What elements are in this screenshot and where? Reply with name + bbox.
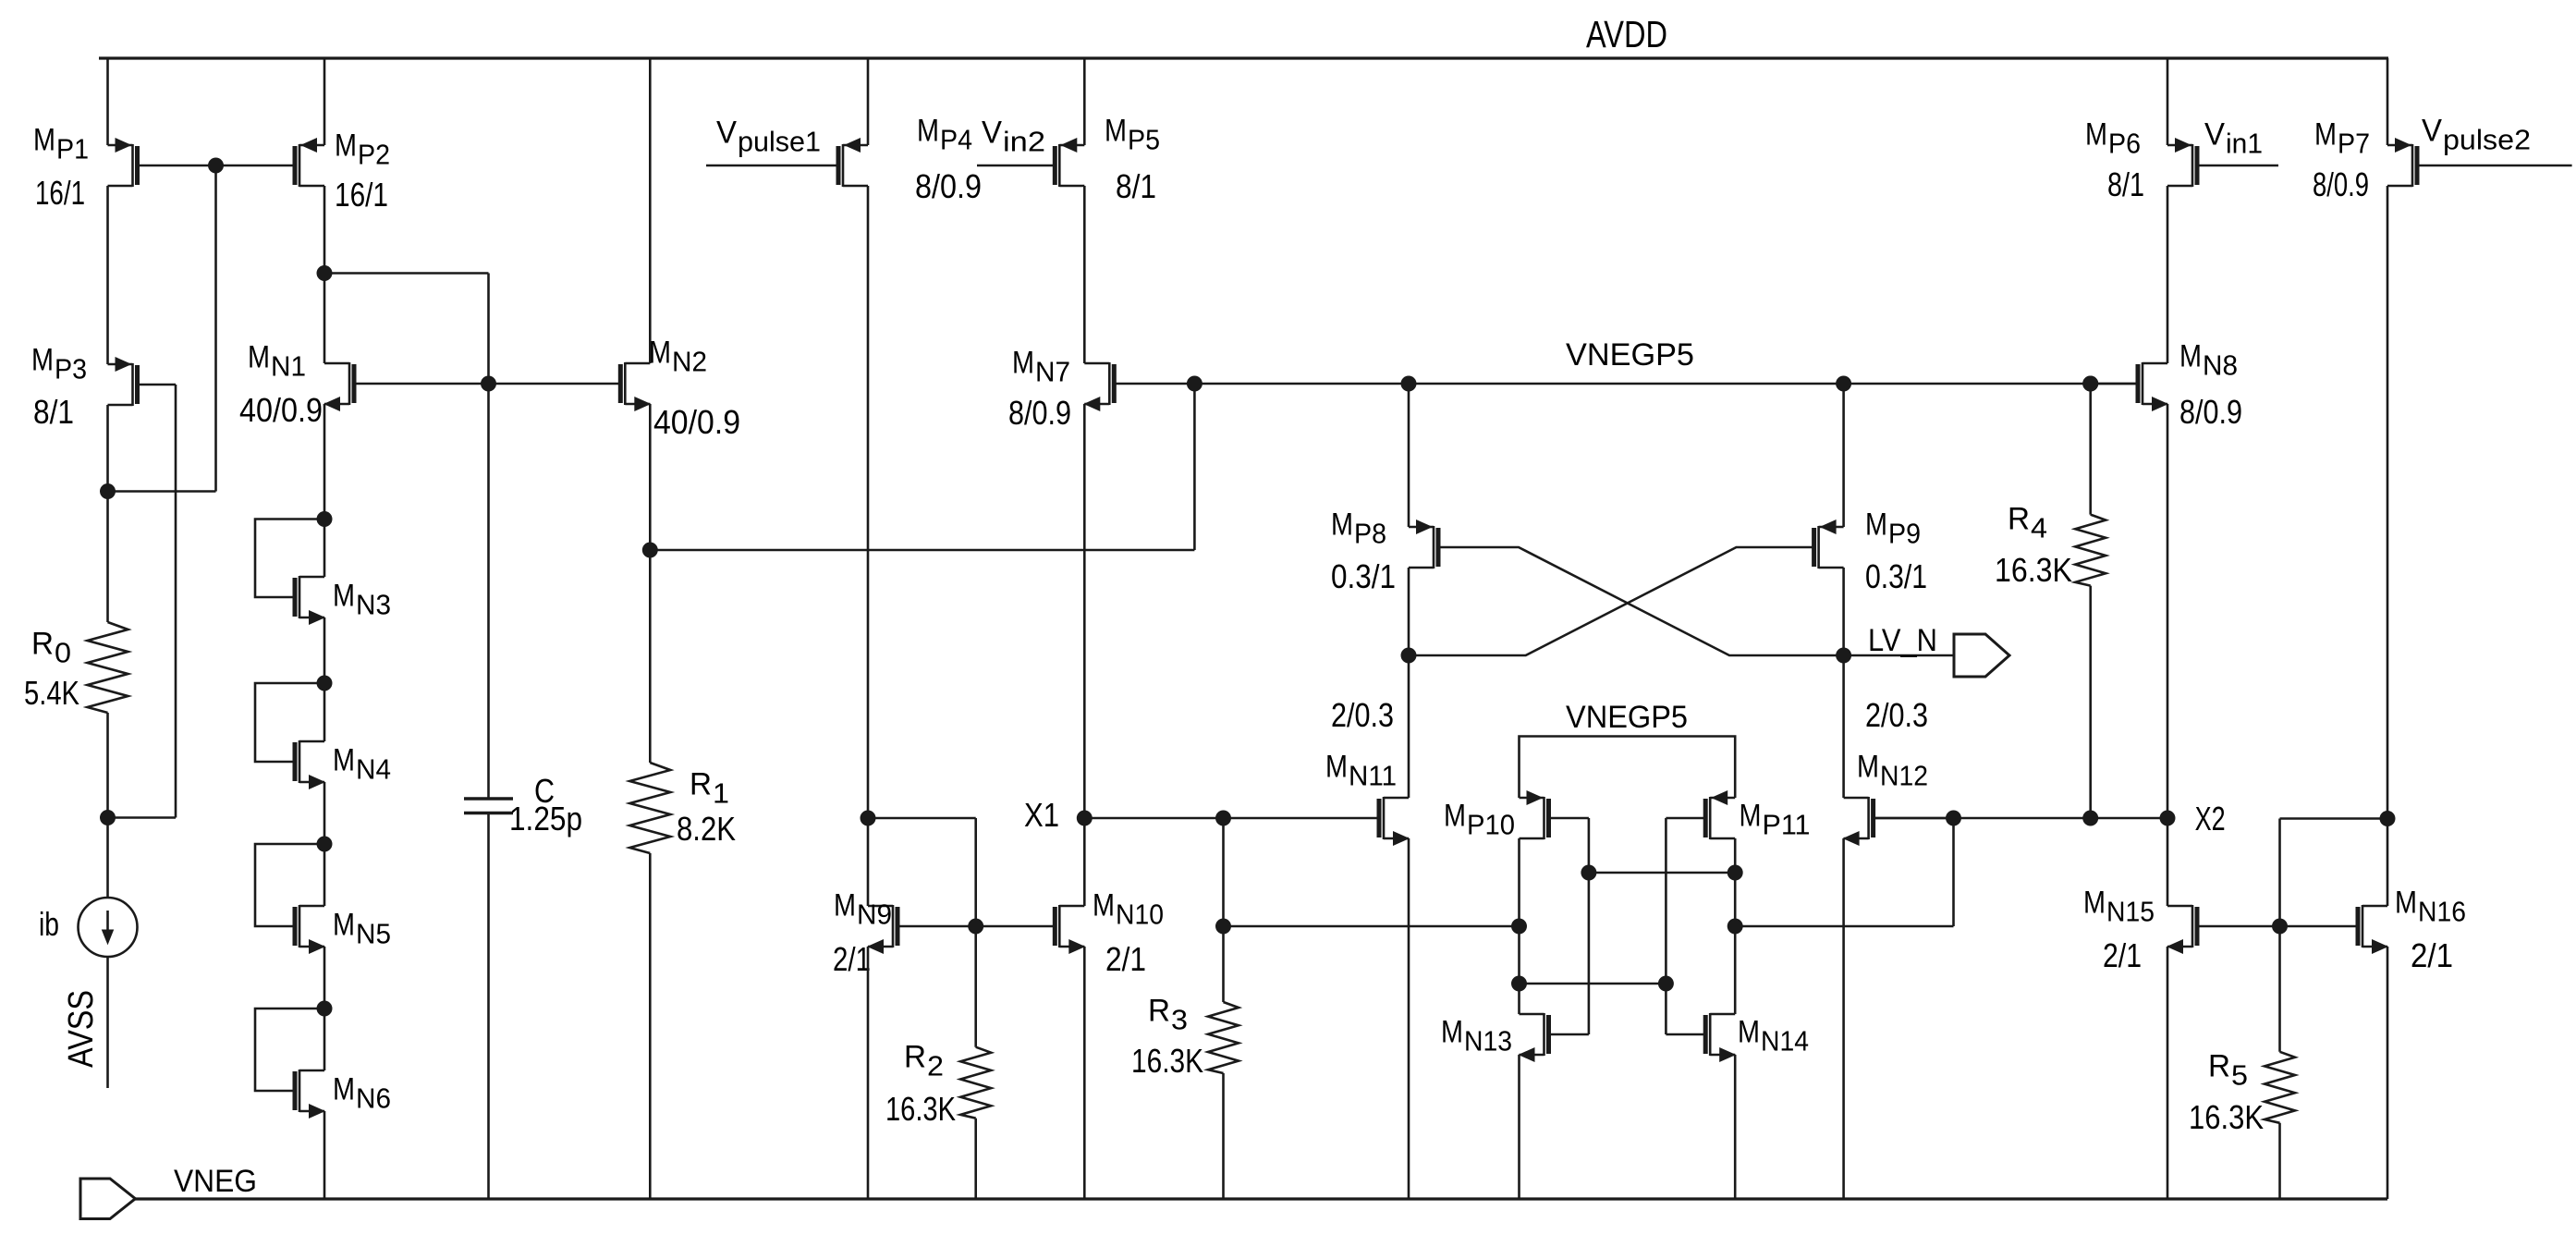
- node MN1/MN2 gate line: [481, 376, 496, 392]
- svg-text:pulse2: pulse2: [2443, 123, 2531, 155]
- wire MP11 drain to MN14: [1734, 838, 1737, 1014]
- ground rail VNEG: [135, 1197, 2387, 1200]
- svg-text:M: M: [2179, 338, 2202, 373]
- svg-text:M: M: [1738, 1014, 1760, 1049]
- wire MN5 gate loop: [255, 844, 324, 926]
- svg-text:P11: P11: [1763, 808, 1811, 840]
- wire MN6 source to VNEG: [324, 1111, 326, 1199]
- svg-text:16.3K: 16.3K: [1995, 551, 2072, 589]
- node MP8 drain: [1401, 648, 1417, 664]
- svg-text:8/1: 8/1: [1116, 167, 1156, 205]
- wire MN14 source to VNEG: [1734, 1055, 1737, 1199]
- node MN2 source: [642, 543, 658, 558]
- wire MP10 drain to MN13: [1518, 838, 1520, 1014]
- svg-text:N14: N14: [1761, 1024, 1809, 1057]
- svg-text:R: R: [2008, 501, 2030, 536]
- svg-text:P2: P2: [358, 138, 390, 170]
- svg-text:N4: N4: [356, 752, 391, 785]
- wire left bus MP10 drain to R3: [1224, 925, 1520, 928]
- svg-text:M: M: [333, 578, 355, 613]
- svg-text:1: 1: [713, 776, 729, 809]
- svg-text:2: 2: [927, 1049, 944, 1082]
- wire MP8 gate cross to MP9 drain: [1439, 547, 1844, 655]
- wire MP8 drain to MN11: [1408, 568, 1410, 798]
- node above MN4: [317, 676, 333, 691]
- svg-text:VNEGP5: VNEGP5: [1566, 337, 1694, 373]
- svg-text:N8: N8: [2203, 348, 2238, 381]
- svg-text:N13: N13: [1464, 1024, 1512, 1057]
- svg-text:M: M: [1444, 798, 1466, 833]
- svg-text:N5: N5: [356, 917, 391, 949]
- transistor MP8: [1409, 520, 1438, 568]
- node MP8 source: [1401, 376, 1417, 392]
- transistor MP10: [1520, 790, 1589, 839]
- svg-text:P4: P4: [940, 123, 972, 155]
- transistor MN16: [2280, 905, 2389, 954]
- svg-text:16/1: 16/1: [335, 176, 388, 214]
- svg-text:N15: N15: [2106, 895, 2155, 927]
- wire MN10 source to VNEG: [1083, 947, 1086, 1199]
- node R4 top: [2082, 376, 2098, 392]
- svg-text:8/0.9: 8/0.9: [2313, 165, 2369, 203]
- wire cross MP10 drain to MP11 gate: [1520, 983, 1666, 985]
- node MP1/MP2 gates: [208, 158, 224, 174]
- wire MN12 source to VNEG: [1842, 838, 1845, 1199]
- svg-text:16.3K: 16.3K: [1131, 1042, 1203, 1080]
- svg-text:P9: P9: [1888, 517, 1921, 549]
- svg-text:0: 0: [55, 636, 71, 668]
- svg-text:M: M: [2395, 885, 2417, 920]
- svg-text:X2: X2: [2195, 800, 2226, 837]
- wire MN6 gate loop: [255, 1009, 324, 1091]
- net X2 line: [1875, 817, 2167, 820]
- svg-text:ib: ib: [39, 905, 59, 943]
- wire MN5 source: [324, 947, 326, 1070]
- wire MN11 source to VNEG: [1408, 838, 1410, 1199]
- svg-text:8/0.9: 8/0.9: [915, 167, 982, 205]
- node MP3 drain / bias: [100, 483, 116, 499]
- transistor MN10: [976, 905, 1086, 954]
- resistor R3: [1208, 1002, 1239, 1073]
- svg-text:V: V: [2204, 116, 2225, 152]
- wire R5 to VNEG: [2278, 1123, 2281, 1199]
- svg-text:16.3K: 16.3K: [2189, 1098, 2264, 1136]
- node R3 / left bus: [1215, 919, 1231, 935]
- svg-text:N9: N9: [857, 898, 892, 930]
- wire MP8 source: [1408, 384, 1410, 527]
- svg-text:2/0.3: 2/0.3: [1865, 696, 1928, 734]
- wire R4 to X2: [2089, 586, 2092, 818]
- svg-text:M: M: [333, 742, 355, 777]
- svg-text:M: M: [649, 335, 671, 370]
- wire MP1 source: [106, 58, 109, 145]
- node above MN6: [317, 1001, 333, 1017]
- transistor MP5: [977, 138, 1084, 187]
- transistor MN2: [489, 362, 652, 411]
- wire MN3 source: [324, 617, 326, 741]
- svg-text:16/1: 16/1: [35, 174, 85, 212]
- wire R0 to current source: [106, 713, 109, 898]
- wire MP4 source: [867, 58, 870, 145]
- svg-text:AVDD: AVDD: [1586, 13, 1667, 55]
- node MN8 gate / R4: [2082, 376, 2098, 392]
- svg-text:M: M: [2083, 885, 2106, 920]
- svg-text:N2: N2: [672, 345, 707, 377]
- node MN15/MN16 gates / R5: [2272, 919, 2288, 935]
- svg-text:N7: N7: [1035, 355, 1070, 387]
- wire MP5 source: [1083, 58, 1086, 145]
- port flag LV_N: [1954, 634, 2009, 677]
- svg-text:P3: P3: [55, 352, 87, 385]
- port flag VNEG: [80, 1179, 135, 1219]
- transistor MN4: [295, 740, 325, 789]
- svg-text:P6: P6: [2108, 127, 2141, 159]
- wire MP10/MN13 gate link: [1588, 818, 1591, 1034]
- node MN7 gate / VNEGP5: [1187, 376, 1203, 392]
- wire capacitor to VNEG: [487, 813, 490, 1200]
- wire MP4 drain to MN9: [867, 186, 870, 906]
- node X2 / MN15 drain: [2160, 811, 2176, 826]
- svg-text:M: M: [335, 128, 357, 163]
- svg-text:N3: N3: [356, 588, 391, 620]
- wire cross MP11 drain to MP10 gate: [1589, 872, 1735, 874]
- wire MP1 drain to MP3 source: [106, 186, 109, 364]
- node MN12 gate / X2: [1946, 811, 1961, 826]
- wire MP7 source: [2387, 58, 2389, 145]
- svg-text:R: R: [1148, 993, 1170, 1028]
- wire MN2 drain from AVDD: [649, 58, 652, 363]
- transistor MN7: [1083, 362, 1194, 411]
- svg-text:in1: in1: [2226, 127, 2263, 159]
- svg-text:0.3/1: 0.3/1: [1331, 557, 1396, 595]
- node MN16 drain: [2380, 811, 2396, 826]
- svg-text:AVSS: AVSS: [62, 990, 101, 1068]
- transistor MN14: [1666, 1013, 1736, 1062]
- svg-text:in2: in2: [1003, 125, 1045, 157]
- node MP9 source: [1836, 376, 1851, 392]
- transistor MN3: [295, 576, 325, 625]
- svg-text:M: M: [1865, 507, 1887, 542]
- transistor MN12: [1843, 797, 1954, 846]
- svg-text:P1: P1: [56, 132, 89, 165]
- svg-text:2/1: 2/1: [1105, 940, 1146, 978]
- svg-text:2/0.3: 2/0.3: [1331, 696, 1394, 734]
- node MN9/MN10 gates: [968, 919, 983, 935]
- wire R2 to VNEG: [974, 1119, 977, 1199]
- transistor MN9: [867, 905, 976, 954]
- svg-text:N16: N16: [2418, 895, 2466, 927]
- svg-text:N1: N1: [271, 349, 306, 382]
- svg-text:N6: N6: [356, 1082, 391, 1114]
- svg-text:2/1: 2/1: [2103, 936, 2142, 974]
- wire MN16 source to VNEG: [2387, 947, 2389, 1199]
- wire gate node to capacitor: [487, 384, 490, 799]
- svg-text:M: M: [31, 342, 54, 377]
- wire MN3 gate loop: [255, 520, 324, 598]
- svg-text:M: M: [1105, 113, 1127, 148]
- transistor MP1: [108, 138, 216, 187]
- svg-text:V: V: [982, 115, 1002, 150]
- wire R1 to VNEG: [649, 853, 652, 1199]
- wire MP6 drain to MN8: [2167, 186, 2169, 363]
- svg-text:4: 4: [2031, 511, 2047, 544]
- transistor MP3: [108, 357, 177, 406]
- svg-text:R: R: [690, 766, 712, 801]
- node LV_N: [1836, 648, 1851, 664]
- transistor MP7: [2387, 138, 2572, 187]
- wire LV_N output: [1844, 654, 1954, 657]
- svg-text:R: R: [2208, 1048, 2230, 1083]
- svg-text:N10: N10: [1116, 898, 1164, 930]
- resistor R4: [2089, 384, 2092, 515]
- wire MP2 drain: [324, 186, 326, 363]
- svg-text:1.25p: 1.25p: [509, 800, 582, 837]
- svg-text:N11: N11: [1349, 759, 1397, 791]
- node R0 bottom / MP3 gate: [100, 810, 116, 825]
- svg-text:pulse1: pulse1: [738, 125, 821, 157]
- svg-text:5.4K: 5.4K: [24, 674, 79, 712]
- wire R3 to VNEG: [1222, 1073, 1225, 1199]
- svg-text:N12: N12: [1880, 759, 1928, 791]
- transistor MP9: [1814, 520, 1844, 568]
- svg-text:M: M: [834, 887, 856, 923]
- svg-text:M: M: [1740, 798, 1762, 833]
- current source ib: [79, 898, 138, 957]
- svg-text:R: R: [31, 626, 54, 661]
- wire ib to AVSS: [106, 957, 109, 1088]
- resistor R5: [2265, 1052, 2295, 1123]
- wire MN4 gate loop: [255, 683, 324, 762]
- node above MN5: [317, 837, 333, 852]
- wire MN13 source to VNEG: [1518, 1055, 1520, 1199]
- transistor MN5: [295, 905, 325, 954]
- svg-text:8/1: 8/1: [33, 393, 74, 431]
- transistor MP6: [2167, 138, 2278, 187]
- wire right bus MP11 drain to X2 link: [1735, 925, 1953, 928]
- wire MP9 drain to MN12: [1842, 568, 1845, 798]
- svg-text:M: M: [333, 907, 355, 942]
- svg-text:M: M: [1325, 749, 1348, 784]
- transistor MN8: [2091, 362, 2168, 411]
- wire MP3 drain to R0: [106, 405, 109, 622]
- wire MP3 gate return: [175, 385, 177, 818]
- transistor MP2: [216, 138, 325, 187]
- power rail AVDD: [99, 56, 2388, 59]
- resistor R1: [629, 763, 670, 853]
- svg-text:P7: P7: [2338, 127, 2370, 159]
- wire gate node down to MP3 drain: [214, 165, 217, 492]
- transistor MN15: [2167, 905, 2280, 954]
- wire MP9 gate cross to MP8 drain: [1409, 547, 1813, 655]
- transistor MN11: [1379, 797, 1410, 846]
- wire MN16 diode loop: [2280, 817, 2388, 820]
- svg-text:P8: P8: [1354, 517, 1386, 549]
- svg-text:V: V: [716, 115, 737, 150]
- svg-text:M: M: [1331, 507, 1353, 542]
- wire MP9 source: [1842, 384, 1845, 527]
- svg-text:M: M: [1857, 749, 1879, 784]
- wire MP11/MN14 gate link: [1665, 818, 1667, 1034]
- wire X1 to R3: [1222, 818, 1225, 1002]
- wire MN1 source down: [324, 404, 326, 577]
- transistor MN13: [1519, 1013, 1589, 1062]
- transistor MP4: [706, 138, 868, 187]
- svg-text:VNEGP5: VNEGP5: [1566, 700, 1688, 735]
- svg-text:M: M: [2314, 116, 2337, 152]
- wire MN9 diode loop: [868, 817, 976, 820]
- svg-text:P5: P5: [1128, 123, 1160, 155]
- wire MP5 drain to MN7: [1083, 186, 1086, 363]
- svg-text:V: V: [2422, 113, 2442, 148]
- capacitor C: [464, 797, 513, 800]
- svg-text:M: M: [33, 122, 55, 157]
- svg-text:M: M: [333, 1071, 355, 1106]
- svg-text:M: M: [2085, 116, 2107, 152]
- svg-text:8/0.9: 8/0.9: [2179, 393, 2242, 431]
- svg-text:VNEG: VNEG: [174, 1164, 257, 1199]
- wire MN9 source to VNEG: [867, 947, 870, 1199]
- node R4 bottom: [2082, 811, 2098, 826]
- transistor MP11: [1666, 790, 1735, 839]
- wire MN2 source to MN7 gate node: [650, 549, 1194, 552]
- node MP2 drain: [317, 265, 333, 281]
- wire X2 link vertical: [1952, 818, 1955, 926]
- node MN9 drain: [861, 811, 876, 826]
- svg-text:3: 3: [1171, 1003, 1188, 1035]
- svg-text:R: R: [904, 1039, 926, 1074]
- wire MN8 source to MN15: [2167, 404, 2169, 906]
- transistor MN6: [295, 1070, 325, 1119]
- svg-text:M: M: [1093, 887, 1115, 923]
- wire MN15 source to VNEG: [2167, 947, 2169, 1199]
- svg-text:LV_N: LV_N: [1868, 623, 1937, 658]
- wire MN4 source: [324, 782, 326, 906]
- node X1: [1077, 811, 1093, 826]
- resistor R2: [960, 1047, 991, 1119]
- svg-text:M: M: [917, 113, 939, 148]
- net X1 line to MN11 gate: [1084, 817, 1379, 820]
- svg-text:2/1: 2/1: [2411, 936, 2453, 974]
- svg-text:0.3/1: 0.3/1: [1865, 557, 1927, 595]
- wire MN7 source to X1: [1083, 404, 1086, 906]
- net VNEGP5 line: [1194, 383, 2138, 385]
- node MN1 source / MN3 gate: [317, 511, 333, 527]
- svg-text:16.3K: 16.3K: [885, 1090, 956, 1128]
- svg-text:40/0.9: 40/0.9: [653, 403, 740, 441]
- svg-text:X1: X1: [1024, 796, 1059, 834]
- svg-text:40/0.9: 40/0.9: [239, 391, 323, 429]
- svg-text:M: M: [248, 339, 270, 374]
- node R3 top: [1215, 811, 1231, 826]
- svg-text:P10: P10: [1467, 808, 1515, 840]
- net VNEGP5 latch bar: [1520, 737, 1736, 799]
- svg-text:8.2K: 8.2K: [677, 810, 736, 848]
- svg-text:M: M: [1441, 1014, 1463, 1049]
- wire MP6 source: [2167, 58, 2169, 145]
- svg-text:M: M: [1012, 345, 1034, 380]
- svg-text:2/1: 2/1: [833, 940, 871, 978]
- wire MN2 source: [649, 404, 652, 763]
- wire MP2 source: [324, 58, 326, 145]
- svg-text:5: 5: [2231, 1058, 2248, 1091]
- transistor MN1: [324, 362, 488, 411]
- wire MP7 drain to MN16: [2387, 186, 2389, 906]
- resistor R0: [88, 622, 128, 713]
- svg-text:8/1: 8/1: [2107, 165, 2144, 203]
- svg-text:8/0.9: 8/0.9: [1008, 394, 1071, 432]
- wire MP2 drain to gate line: [324, 272, 489, 275]
